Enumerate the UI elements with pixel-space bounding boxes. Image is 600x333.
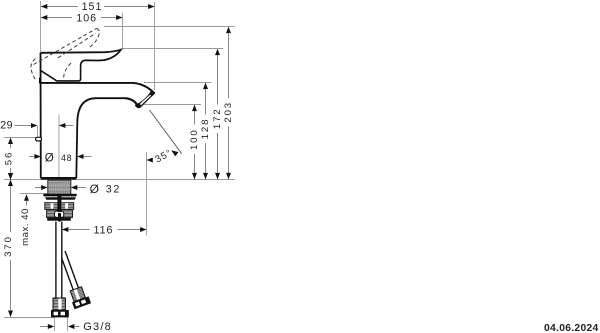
extension: raised handle top level (203 ref) <box>104 26 235 28</box>
handle underside / cap <box>40 60 85 81</box>
extension line at spout tip (151 right) <box>154 2 156 90</box>
dim 116 <box>62 227 68 232</box>
dim diameter 48 <box>29 156 35 158</box>
faucet body fill <box>40 53 154 179</box>
dim 100 vertical <box>194 105 196 125</box>
svg-text:04.06.2024: 04.06.2024 <box>544 323 599 333</box>
straight hose connector <box>53 298 65 310</box>
dim 172 vertical <box>217 50 219 105</box>
faucet right edge and under-spout curve <box>76 98 125 178</box>
pull rod center <box>57 196 61 212</box>
mounting nut upper <box>45 203 74 210</box>
extension: washer top (max.40 ref) <box>20 193 48 195</box>
extension line at handle tip (106 right) <box>122 13 124 49</box>
extension: protrusion level (56 ref) <box>4 137 36 139</box>
spout tip face (dark beak) <box>136 91 155 108</box>
svg-text:106: 106 <box>76 13 97 25</box>
reference plane line <box>4 179 235 181</box>
bottom band of nut <box>47 218 71 221</box>
svg-text:203: 203 <box>223 101 234 123</box>
extension: vertical from protrusion (29 ref) <box>37 126 39 138</box>
svg-text:128: 128 <box>200 118 211 140</box>
svg-text:370: 370 <box>3 235 14 257</box>
centerline of faucet <box>58 115 60 180</box>
threaded shank <box>48 180 71 194</box>
extension line left edge (151/106) <box>40 1 42 52</box>
svg-text:100: 100 <box>189 128 200 150</box>
extension: handle top level (172 ref) <box>123 48 224 50</box>
svg-text:Ø: Ø <box>45 152 55 165</box>
svg-text:56: 56 <box>4 151 15 165</box>
aerator stadium <box>142 97 151 105</box>
dim diameter 32 <box>35 187 42 189</box>
dim 56 vertical <box>10 138 12 148</box>
tip face thin line over stadium <box>141 93 155 106</box>
diagonal supply hose <box>55 249 91 310</box>
dim 203 vertical <box>228 27 230 98</box>
svg-text:151: 151 <box>82 1 103 13</box>
dim 151 <box>41 6 154 8</box>
faucet body left edge <box>40 53 42 179</box>
dashed raised-handle outline <box>31 28 100 80</box>
extension: spout top level (128 ref) <box>144 82 212 84</box>
handle fill <box>40 50 121 81</box>
dim G3/8 <box>40 326 49 328</box>
svg-text:Ø: Ø <box>90 182 100 196</box>
35deg diagonal reference line <box>150 110 182 154</box>
svg-text:max. 40: max. 40 <box>20 208 31 246</box>
mounting nut lower <box>47 210 73 218</box>
extension: aerator underside level (100 ref) <box>144 104 202 106</box>
washer under counter <box>43 194 77 197</box>
svg-text:172: 172 <box>212 107 223 129</box>
extension: G3/8 verticals <box>54 318 56 332</box>
svg-text:29: 29 <box>0 120 13 132</box>
protrusion (set screw) on left of body <box>36 137 42 141</box>
dim max.40 <box>24 194 29 200</box>
collar at body top <box>39 78 41 84</box>
spout top line <box>40 83 154 93</box>
svg-text:116: 116 <box>93 225 113 237</box>
dim 370 vertical <box>10 180 12 232</box>
under-tip curve <box>125 98 138 106</box>
dim 35 deg <box>146 158 152 163</box>
svg-text:G3/8: G3/8 <box>83 321 112 333</box>
dim 106 <box>41 17 122 19</box>
faucet base bottom <box>41 177 77 180</box>
extension: hose bottom (370 ref) <box>4 317 55 319</box>
handle lever outline <box>41 50 121 61</box>
dim 128 vertical <box>205 83 207 115</box>
straight supply hose <box>57 222 62 298</box>
extension: 35deg / 116 shared vertical <box>146 152 148 236</box>
svg-text:48: 48 <box>61 153 72 163</box>
collar band <box>45 197 76 200</box>
svg-text:32: 32 <box>106 183 121 195</box>
